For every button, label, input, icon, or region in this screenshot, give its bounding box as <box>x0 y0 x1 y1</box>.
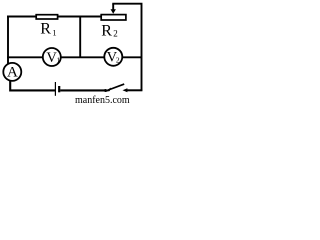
svg-text:R: R <box>101 22 112 39</box>
wire V2 to right rail <box>123 56 142 58</box>
svg-text:1: 1 <box>56 55 60 64</box>
switch S pivot <box>104 89 107 92</box>
wire junction to V2 <box>80 56 104 58</box>
svg-text:A: A <box>7 65 18 81</box>
svg-text:R: R <box>40 20 51 37</box>
wire left rail <box>7 16 9 64</box>
wire junction to voltmeter row <box>79 17 81 59</box>
battery (short thick plate) <box>58 86 60 92</box>
svg-text:2: 2 <box>113 29 118 39</box>
wire slider to top-right corner and right rail <box>112 4 141 91</box>
wire voltmeter row left <box>7 56 43 58</box>
switch S blade barb <box>105 88 111 92</box>
rheostat slider arrow <box>111 4 116 14</box>
wire ammeter to bottom-left corner <box>10 81 55 91</box>
voltmeter V2 <box>104 48 122 66</box>
battery (long plate) <box>54 82 56 96</box>
svg-text:2: 2 <box>116 55 120 64</box>
wire battery to switch <box>60 89 105 91</box>
switch fixed contact arrowhead <box>123 88 128 92</box>
resistor R2 (rheostat body) <box>101 15 126 20</box>
voltmeter V1 <box>43 48 61 66</box>
svg-text:manfen5.com: manfen5.com <box>75 95 130 105</box>
wire V1 to junction <box>61 56 80 58</box>
ammeter A <box>3 63 21 81</box>
wire R1 to R2 <box>58 16 101 18</box>
switch S blade <box>106 84 125 91</box>
wire switch to bottom-right corner <box>127 89 143 91</box>
wire top-left segment to R1 <box>7 16 37 18</box>
resistor R1 <box>36 15 57 19</box>
svg-text:1: 1 <box>52 27 56 37</box>
